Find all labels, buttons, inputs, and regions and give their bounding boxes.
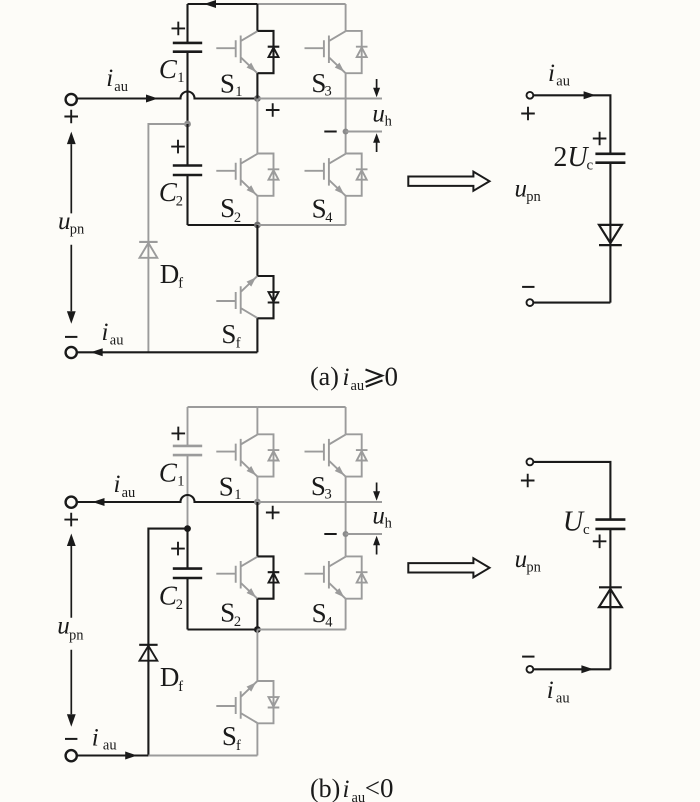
figure (b): u_h upper arrow (down) — [376, 483, 378, 494]
figure (a): wire midpoint rail to right leg and u_h extension — [257, 98, 382, 100]
equivalent (b): polarity + top (eq b) — [521, 474, 535, 488]
figure (b): wire top rail to S1 — [256, 407, 258, 434]
block arrow (a) implies equivalent — [408, 172, 489, 191]
svg-text:i: i — [548, 60, 555, 87]
svg-text:U: U — [563, 507, 585, 538]
svg-text:1: 1 — [235, 84, 242, 100]
figure (b): node between C1 and C2 — [184, 525, 191, 532]
figure (a): capacitor C2 — [173, 166, 202, 176]
svg-text:2: 2 — [234, 614, 241, 630]
figure (a): polarity - of u_h — [324, 131, 336, 133]
figure (b): polarity + of C2 — [171, 542, 185, 556]
figure (b): polarity + of C1 — [172, 427, 186, 441]
svg-text:u: u — [372, 503, 385, 530]
svg-text:u: u — [57, 613, 69, 640]
svg-text:S: S — [222, 721, 237, 751]
svg-text:2: 2 — [234, 210, 241, 226]
figure (b): u_h tap junction — [343, 531, 349, 537]
svg-text:u: u — [515, 176, 528, 203]
svg-text:S: S — [220, 193, 235, 223]
svg-text:C: C — [159, 457, 178, 487]
figure (b): wire C1 top lead — [187, 407, 189, 446]
svg-text:pn: pn — [526, 559, 541, 575]
equivalent (b): polarity + of Uc — [593, 535, 607, 549]
svg-text:pn: pn — [69, 627, 84, 643]
figure (b): IGBT S4 with antiparallel diode — [305, 556, 368, 598]
figure (b): current arrow on bottom rail — [125, 752, 137, 760]
figure (a): polarity + of C2 — [171, 140, 185, 154]
figure (a): wire C1 top lead — [186, 4, 188, 43]
figure (a): u_pn dimension arrow upper — [67, 132, 76, 145]
figure (a): wire C2 to mid rail — [186, 175, 188, 225]
svg-text:i: i — [343, 776, 350, 802]
svg-text:0: 0 — [385, 362, 399, 392]
svg-text:i: i — [547, 677, 554, 704]
svg-text:f: f — [178, 679, 183, 695]
svg-text:au: au — [351, 378, 365, 394]
equivalent (b): wire top — [533, 462, 610, 520]
figure (b): u_pn dimension arrow upper — [67, 534, 76, 547]
figure (a): wire top rail right — [257, 3, 345, 5]
figure (b): wire bottom rail (terminal to Df) — [77, 754, 148, 756]
svg-text:u: u — [372, 101, 385, 128]
figure (b): terminal n (bottom-left) — [66, 750, 77, 761]
figure (a): freewheeling diode Df — [139, 241, 157, 243]
svg-text:i: i — [106, 65, 113, 92]
figure (b): IGBT Sf with antiparallel diode (mirrored) — [216, 681, 279, 723]
figure (b): wire input rail with hop over capacitor string — [77, 495, 257, 502]
svg-text:S: S — [219, 472, 234, 502]
figure (b): wire mid rail right (to S4) — [257, 629, 345, 631]
equivalent (b): polarity - bottom (eq b) — [522, 656, 534, 658]
svg-text:i: i — [92, 724, 99, 751]
figure (a): junction S2 bottom — [254, 222, 261, 229]
svg-text:au: au — [556, 690, 570, 706]
figure (b): u_h lower measurement line — [346, 533, 382, 535]
svg-text:S: S — [220, 69, 235, 99]
figure (b): wire midpoint rail to right leg and u_h extension — [257, 501, 382, 503]
equivalent (a): capacitor 2Uc — [595, 154, 625, 163]
figure (b): terminal p (top-left) — [66, 497, 77, 508]
svg-text:i: i — [114, 471, 121, 498]
figure (a): wire top rail left — [188, 3, 258, 5]
figure (a): u_pn dimension arrow lower — [70, 245, 72, 311]
figure (a): wire S1 to midpoint — [256, 73, 258, 98]
svg-text:c: c — [587, 158, 594, 174]
svg-text:D: D — [160, 259, 180, 289]
figure (a): wire top rail to S3 — [345, 4, 347, 31]
figure (a): IGBT S1 with antiparallel diode — [216, 31, 279, 73]
figure (a): capacitor C1 — [173, 43, 202, 52]
figure (a): current arrow on input rail — [146, 95, 158, 103]
figure (a): wire S2 to mid rail — [256, 196, 258, 225]
figure (a): wire top rail to S1 — [256, 4, 258, 31]
figure (a): wire mid rail to Sf — [256, 225, 258, 276]
svg-text:au: au — [352, 790, 366, 802]
figure (a): wire midpoint to S2 — [256, 99, 258, 154]
equivalent (b): capacitor Uc — [595, 520, 625, 529]
figure (b): wire Sf to bottom rail — [256, 723, 258, 755]
svg-text:u: u — [515, 546, 528, 573]
figure (b): wire midpoint to S2 — [256, 502, 258, 556]
figure (a): IGBT Sf with antiparallel diode (mirrored) — [216, 276, 279, 318]
figure (a): wire S3 to rail — [345, 73, 347, 98]
figure (b): u_pn dimension arrow lower — [70, 650, 72, 715]
figure (b): wire node to Df branch — [148, 529, 187, 756]
figure (b): polarity - of u_pn — [65, 738, 77, 740]
svg-text:pn: pn — [526, 189, 541, 205]
figure (a): junction S1-S2 midpoint — [254, 95, 261, 102]
svg-text:h: h — [385, 114, 393, 130]
svg-text:au: au — [114, 79, 128, 95]
svg-text:i: i — [343, 364, 350, 391]
equivalent (b): terminal + (eq) — [527, 459, 534, 466]
figure (a): IGBT S3 with antiparallel diode — [305, 31, 368, 73]
figure (b): wire top rail left — [188, 406, 258, 408]
figure (b): capacitor C1 — [173, 446, 202, 455]
figure (b): polarity + of u_h — [266, 506, 280, 520]
figure (b): polarity - of u_h — [324, 533, 336, 535]
equivalent (b): wire cap to diode and bottom — [609, 529, 611, 669]
svg-text:1: 1 — [177, 473, 184, 489]
svg-text:D: D — [160, 662, 180, 692]
svg-text:pn: pn — [70, 221, 85, 237]
svg-text:4: 4 — [325, 614, 333, 630]
figure (b): wire S4 to mid rail — [345, 599, 347, 630]
figure (a): wire mid rail right (to S4) — [257, 224, 345, 226]
svg-text:u: u — [58, 208, 71, 235]
figure (b): wire C2 to mid rail — [186, 578, 188, 630]
figure (b): freewheeling diode Df — [139, 644, 157, 646]
figure (a): polarity + of u_h — [266, 103, 280, 117]
figure (b): u_h lower arrow (up) — [376, 543, 378, 555]
figure (a): IGBT S4 with antiparallel diode — [305, 154, 368, 196]
svg-text:2: 2 — [176, 597, 183, 613]
svg-text:3: 3 — [325, 487, 332, 503]
figure (b): wire bottom rail (Df to Sf) — [148, 755, 257, 757]
svg-text:2: 2 — [176, 193, 183, 209]
equivalent (b): wire bottom — [533, 668, 610, 670]
figure (a): wire C1 to node (crosses input rail) — [186, 52, 188, 124]
svg-text:f: f — [236, 336, 241, 352]
equivalent (a): current arrow top wire — [584, 91, 596, 99]
svg-text:3: 3 — [325, 84, 332, 100]
svg-text:2U: 2U — [553, 142, 589, 173]
figure (b): wire S2 to mid rail — [256, 599, 258, 630]
figure (b): wire top rail to S3 — [345, 407, 347, 434]
figure (a): polarity + of u_pn — [64, 110, 78, 124]
figure (a): current arrow on top rail (left) — [204, 0, 216, 8]
figure (b): IGBT S2 with antiparallel diode — [216, 556, 279, 598]
equivalent (a): terminal - (eq) — [527, 299, 534, 306]
svg-text:1: 1 — [234, 487, 241, 503]
svg-text:au: au — [103, 737, 117, 753]
svg-text:c: c — [583, 522, 590, 538]
svg-text:au: au — [556, 74, 570, 90]
figure (b): wire node to C2 — [186, 529, 188, 569]
figure (b): wire mid rail to Sf — [256, 630, 258, 682]
figure (b): IGBT S3 with antiparallel diode — [305, 434, 368, 476]
equivalent (a): diode (eq, pointing down) — [599, 225, 622, 243]
svg-text:<0: <0 — [365, 773, 394, 802]
figure (a): u_h lower arrow (up) — [376, 141, 378, 153]
figure (a): wire mid rail left (C2 to S2) — [188, 224, 258, 226]
figure (a): wire node to Df branch — [148, 124, 187, 352]
figure (b): junction S2 bottom — [254, 626, 261, 633]
figure (b): wire S3 to rail — [345, 477, 347, 502]
figure (b): wire rail to S4 (through u_h tap) — [345, 502, 347, 556]
figure (a): IGBT S2 with antiparallel diode — [216, 154, 279, 196]
equivalent (a): polarity - bottom (eq a) — [522, 286, 534, 288]
figure (b): wire mid rail left (C2 to S2) — [188, 628, 258, 630]
figure (a): terminal n (bottom-left) — [66, 347, 77, 358]
figure (b): wire top rail right — [257, 406, 345, 408]
figure (a): u_h upper arrow (down) — [376, 79, 378, 90]
equivalent (b): diode (eq, pointing up) — [599, 586, 622, 588]
figure (a): polarity + of C1 — [172, 22, 186, 36]
figure (a): polarity - of u_pn — [65, 336, 77, 338]
equivalent (a): polarity + top (eq a) — [521, 107, 535, 121]
figure (a): wire bottom rail — [77, 351, 257, 353]
figure (a): node between C1 and C2 — [184, 121, 191, 128]
figure (a): wire S4 to mid rail — [345, 196, 347, 225]
block arrow (b) implies equivalent — [408, 558, 489, 577]
equivalent (b): current arrow bottom wire — [581, 665, 593, 673]
svg-text:C: C — [159, 54, 178, 84]
svg-text:i: i — [102, 319, 109, 346]
figure (a): wire input rail with hop over capacitor string — [77, 92, 257, 99]
figure (a): wire Sf to bottom rail — [256, 318, 258, 352]
figure (b): IGBT S1 with antiparallel diode — [216, 434, 279, 476]
svg-text:(b): (b) — [310, 774, 340, 802]
figure (b): polarity + of u_pn — [64, 513, 78, 527]
svg-text:f: f — [178, 276, 183, 292]
equivalent (b): terminal - (eq) — [527, 666, 534, 673]
svg-text:f: f — [236, 738, 241, 754]
equivalent (a): wire bottom — [533, 302, 610, 304]
svg-text:au: au — [122, 485, 136, 501]
equivalent (a): polarity + of 2Uc — [593, 132, 607, 146]
figure (b): capacitor C2 — [173, 569, 202, 578]
figure (a): wire node to C2 — [186, 124, 188, 166]
svg-text:au: au — [110, 333, 124, 349]
svg-text:(a): (a) — [310, 362, 339, 391]
figure (a): terminal p (top-left) — [66, 94, 77, 105]
figure (a): u_h lower measurement line — [346, 131, 382, 133]
figure (a): u_h tap junction — [343, 129, 349, 135]
figure (b): current arrow on input rail — [93, 498, 105, 506]
svg-text:1: 1 — [177, 70, 184, 86]
svg-text:S: S — [221, 319, 236, 349]
figure (b): wire S1 to midpoint — [256, 477, 258, 502]
figure (b): junction S1-S2 midpoint — [254, 499, 261, 506]
equivalent (a): terminal + (eq) — [527, 92, 534, 99]
equivalent (a): wire cap to diode and bottom — [609, 163, 611, 303]
figure (b): wire C1 to node (crosses input rail) — [187, 455, 189, 528]
figure (a): wire rail to S4 (through u_h tap) — [345, 99, 347, 154]
figure (a): current arrow on bottom rail — [91, 348, 103, 356]
svg-text:S: S — [220, 598, 235, 628]
svg-text:h: h — [385, 516, 393, 532]
equivalent (a): wire top — [533, 95, 610, 154]
svg-text:4: 4 — [325, 210, 333, 226]
